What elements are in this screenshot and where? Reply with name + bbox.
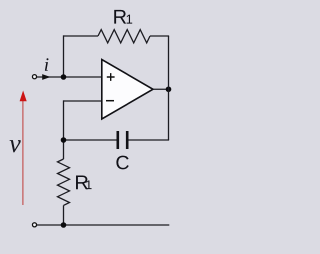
capacitor C plates	[117, 131, 120, 149]
wire op-amp output	[153, 88, 169, 90]
wire left vertical (top rail to input node)	[63, 35, 65, 77]
wire resistor bottom lead	[63, 205, 65, 225]
resistor R1 (left, vertical zigzag)	[58, 159, 70, 205]
label v	[10, 140, 21, 152]
node B junction (inverting/cap/R1)	[61, 137, 67, 143]
wire right vertical (top rail to capacitor)	[168, 36, 170, 140]
wire top rail right segment	[150, 35, 169, 37]
node input junction	[61, 74, 67, 80]
terminal (bottom-left open circle)	[32, 223, 36, 227]
current arrow i	[42, 74, 50, 80]
terminal (input, top-left open circle)	[32, 75, 36, 79]
resistor R1 (top, horizontal zigzag)	[98, 30, 150, 43]
op-amp plus sign	[107, 73, 115, 81]
wire capacitor right	[128, 139, 169, 141]
voltage arrow v (red)	[22, 99, 24, 205]
op-amp U1	[102, 60, 153, 120]
label i	[45, 58, 49, 71]
wire left vertical (inverting input down to node B)	[63, 100, 65, 159]
op-amp minus sign	[106, 100, 114, 102]
wire inverting input horizontal	[64, 100, 102, 102]
wire bottom rail	[37, 224, 169, 226]
label R1 (left resistor)	[76, 176, 88, 190]
label R1 (top)	[114, 10, 126, 24]
wire noninverting input (terminal to op-amp)	[37, 76, 102, 78]
node output junction	[166, 86, 172, 92]
wire top rail left segment	[64, 35, 99, 37]
wire capacitor left	[64, 139, 117, 141]
node bottom junction	[61, 222, 67, 228]
label C	[116, 156, 128, 170]
